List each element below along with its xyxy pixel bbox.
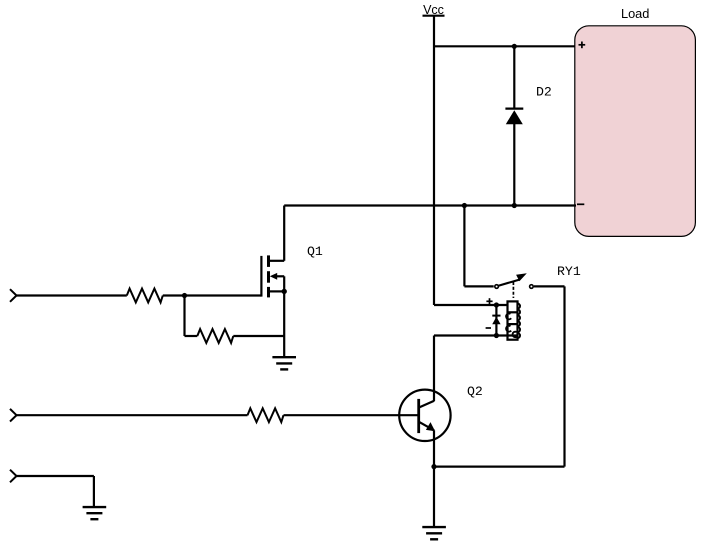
wire switch right to emitter node bbox=[534, 285, 565, 287]
resistor R3 bbox=[248, 408, 284, 422]
wire Q2 emitter down to ground bbox=[433, 430, 435, 527]
resistor R2 bbox=[197, 329, 233, 343]
junction rail to switch bbox=[462, 203, 467, 208]
svg-text:Q2: Q2 bbox=[467, 384, 483, 399]
ground G2 bbox=[422, 527, 446, 539]
junction top D2 bbox=[512, 44, 517, 49]
input port IN2 bbox=[10, 409, 17, 422]
wire R2 to Q1 source bbox=[233, 335, 284, 337]
wire top branch to load bbox=[434, 45, 576, 47]
wire Vcc vertical bbox=[433, 16, 435, 305]
wire rail down to switch left bbox=[463, 206, 465, 287]
transistor Q2 (NPN) bbox=[399, 390, 450, 441]
ground G1 bbox=[272, 357, 296, 369]
wire R1 to gate node bbox=[163, 294, 185, 296]
junction coil minus bbox=[494, 333, 499, 338]
wire IN3 to ground bbox=[17, 475, 94, 477]
wire Q2 collector up to coil minus bbox=[433, 336, 435, 402]
wire gate node down to R2 bbox=[183, 296, 185, 337]
relay RY1 coil bbox=[506, 301, 520, 339]
label - coil bbox=[486, 327, 491, 329]
wire IN1 to R1 bbox=[17, 294, 127, 296]
load block bbox=[575, 6, 696, 237]
svg-text:Vcc: Vcc bbox=[423, 3, 444, 17]
svg-text:D2: D2 bbox=[536, 84, 552, 99]
label + coil bbox=[486, 300, 492, 302]
junction coil plus bbox=[494, 302, 499, 307]
svg-text:Q1: Q1 bbox=[307, 244, 323, 259]
power Vcc bbox=[423, 3, 445, 17]
wire coil minus horizontal bbox=[434, 334, 518, 336]
wire gate node to Q1 gate bbox=[185, 294, 262, 296]
transistor Q1 (N-MOSFET) bbox=[261, 206, 287, 298]
diode D3 flyback across coil bbox=[492, 305, 500, 336]
wire coil plus horizontal bbox=[434, 304, 507, 306]
svg-text:RY1: RY1 bbox=[557, 264, 581, 279]
input port IN1 bbox=[10, 289, 17, 302]
diode D2 bbox=[505, 46, 523, 205]
wire drain rail to load minus bbox=[284, 204, 576, 206]
relay RY1 switch bbox=[495, 273, 533, 298]
junction rail to D2 bbox=[512, 203, 517, 208]
ground G3 bbox=[83, 507, 107, 519]
junction emitter node bbox=[431, 464, 436, 469]
wire IN2 to R3 bbox=[17, 414, 248, 416]
wire Q1 source down to ground bbox=[283, 291, 285, 357]
wire R3 to Q2 base bbox=[284, 414, 418, 416]
resistor R1 bbox=[127, 289, 163, 303]
junction gate node bbox=[182, 293, 187, 298]
svg-text:Load: Load bbox=[621, 6, 649, 21]
input port IN3 bbox=[10, 470, 17, 483]
